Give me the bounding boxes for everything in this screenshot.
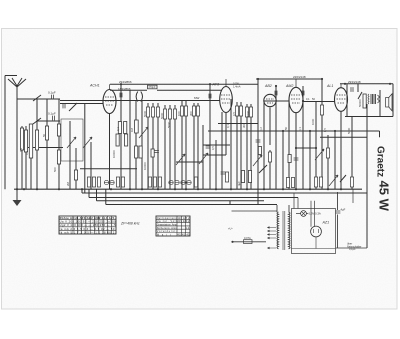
svg-text:0,07A: 0,07A xyxy=(244,236,251,240)
svg-text:0,1: 0,1 xyxy=(226,124,230,128)
svg-text:293/2148: 293/2148 xyxy=(348,80,361,84)
svg-text:1M: 1M xyxy=(130,127,134,132)
svg-text:Graetz: Graetz xyxy=(375,146,386,177)
svg-text:MW: MW xyxy=(194,96,199,100)
svg-text:0,1µF: 0,1µF xyxy=(48,112,56,116)
svg-text:183/2866: 183/2866 xyxy=(118,87,131,91)
svg-text:1000: 1000 xyxy=(311,118,315,125)
svg-text:Ua V 200 200 95 — 250 250 2x30: Ua V 200 200 95 — 250 250 2x300 xyxy=(60,220,117,224)
svg-text:226/2148: 226/2148 xyxy=(293,75,306,79)
svg-text:0,1: 0,1 xyxy=(298,127,302,131)
svg-text:0,5: 0,5 xyxy=(323,128,327,132)
svg-text:6,3V 0,3A: 6,3V 0,3A xyxy=(309,212,321,216)
svg-text:50000: 50000 xyxy=(358,99,362,107)
svg-text:500: 500 xyxy=(53,167,57,172)
svg-text:AF3: AF3 xyxy=(212,83,220,87)
svg-text:Ug2 V 100 100 — — 250 250 — 1,: Ug2 V 100 100 — — 250 250 — 1,5 xyxy=(60,223,117,227)
svg-text:294/2866: 294/2866 xyxy=(119,80,132,84)
svg-text:45 45 45: 45 45 45 xyxy=(178,233,191,236)
svg-text:10000: 10000 xyxy=(112,150,116,158)
svg-text:Ia mA 2,6 5,5 0,4 — 0,6 32 — 5: Ia mA 2,6 5,5 0,4 — 0,6 32 — 50. xyxy=(60,227,116,231)
svg-text:5000: 5000 xyxy=(167,121,171,128)
svg-text:0,2: 0,2 xyxy=(259,127,263,131)
svg-text:300: 300 xyxy=(242,123,246,128)
svg-text:50: 50 xyxy=(284,126,288,130)
svg-text:0,1µF: 0,1µF xyxy=(349,247,356,251)
svg-text:0,1µF: 0,1µF xyxy=(48,91,56,95)
svg-text:470pF: 470pF xyxy=(148,85,156,89)
svg-text:Ik mA 5,1 7,2 0,5 — 1,0 38 60: Ik mA 5,1 7,2 0,5 — 1,0 38 60 2. xyxy=(60,230,116,234)
svg-text:0,5: 0,5 xyxy=(25,151,29,155)
svg-text:AL1: AL1 xyxy=(326,84,333,88)
svg-text:+U~: +U~ xyxy=(228,226,233,230)
svg-text:215 220 2: 215 220 2 xyxy=(178,220,191,223)
svg-text:AZ1: AZ1 xyxy=(322,221,330,225)
svg-text:5000: 5000 xyxy=(143,110,147,117)
svg-text:0,5: 0,5 xyxy=(211,146,215,150)
svg-text:AB2: AB2 xyxy=(264,84,272,88)
svg-text:45 W: 45 W xyxy=(377,181,392,212)
svg-text:2M: 2M xyxy=(66,181,70,186)
svg-text:ACH1: ACH1 xyxy=(89,84,100,88)
svg-text:5000: 5000 xyxy=(347,127,351,134)
svg-text:0,1: 0,1 xyxy=(116,127,120,131)
svg-text:AM2: AM2 xyxy=(285,84,293,88)
svg-text:5000: 5000 xyxy=(160,112,164,119)
svg-text:Röhre ACH1 AF3 AB2 AM2 AL1 AZ1: Röhre ACH1 AF3 AB2 AM2 AL1 AZ1. xyxy=(60,216,116,220)
svg-text:10000: 10000 xyxy=(143,162,147,170)
svg-text:0,1: 0,1 xyxy=(19,148,23,152)
svg-text:50: 50 xyxy=(42,133,46,137)
svg-text:100: 100 xyxy=(177,111,181,116)
svg-text:0,5: 0,5 xyxy=(232,112,236,116)
svg-text:1,4mA: 1,4mA xyxy=(233,85,241,89)
svg-text:300: 300 xyxy=(189,111,193,116)
svg-text:4µF: 4µF xyxy=(341,208,346,212)
svg-text:ZF=468 kHz: ZF=468 kHz xyxy=(120,222,140,226)
svg-text:4µF: 4µF xyxy=(237,181,241,186)
svg-text:1500: 1500 xyxy=(246,110,250,117)
svg-text:0,1: 0,1 xyxy=(306,97,310,101)
